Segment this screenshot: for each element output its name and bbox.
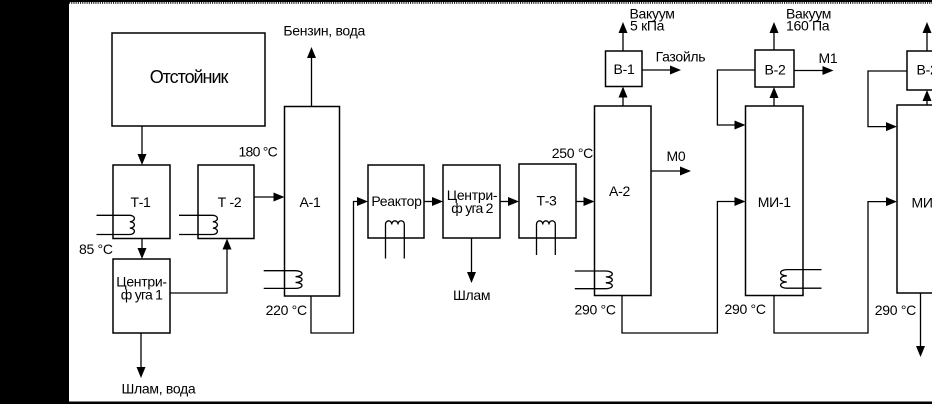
svg-text:МИ-1: МИ-1 xyxy=(758,194,791,210)
svg-text:В-1: В-1 xyxy=(614,61,635,77)
svg-text:Реактор: Реактор xyxy=(371,193,422,209)
coil in МИ-1 xyxy=(781,270,822,289)
svg-text:290 °С: 290 °С xyxy=(875,302,916,318)
wire В-2 М1 out xyxy=(794,70,823,72)
column МИ-2 box (clipped) xyxy=(897,105,932,293)
column МИ-1 box xyxy=(746,106,804,296)
svg-text:А-1: А-1 xyxy=(300,194,321,210)
centrifuge Центрифуга 1 box xyxy=(113,259,170,333)
svg-text:Т -2: Т -2 xyxy=(218,194,242,210)
wire В-2 right recycle to МИ-2 xyxy=(868,71,907,127)
heat exchanger Т-1 box xyxy=(113,165,170,239)
coil in Т-3 xyxy=(536,221,555,255)
wire Центрифуга 2 to Т-3 xyxy=(500,201,509,203)
svg-text:М0: М0 xyxy=(667,148,686,164)
wire Отстойник to Т-1 xyxy=(141,126,143,155)
vessel Отстойник box xyxy=(112,33,265,126)
svg-text:Отстойник: Отстойник xyxy=(150,67,229,87)
condenser В-1 box xyxy=(606,51,643,87)
svg-text:180 °С: 180 °С xyxy=(239,144,278,160)
svg-text:ф уга 1: ф уга 1 xyxy=(121,287,163,303)
column А-2 box xyxy=(595,106,652,296)
wire МИ-2 to В-2 right xyxy=(926,101,928,105)
wire В-2 recycle to МИ-1 xyxy=(717,70,755,125)
coil in А-2 xyxy=(575,271,613,289)
condenser В-2 box xyxy=(755,50,794,87)
wire А-2 bottoms to МИ-1 xyxy=(622,202,735,334)
reactor Реактор box xyxy=(368,165,424,238)
wire В-1 vacuum out xyxy=(622,33,624,51)
coil in Т-1 xyxy=(97,215,135,234)
wire МИ-2 bottoms out xyxy=(920,293,922,346)
wire А-2 М0 out xyxy=(651,170,681,172)
svg-text:Бензин, вода: Бензин, вода xyxy=(283,22,365,38)
coil in Реактор xyxy=(385,221,404,259)
svg-text:250 °С: 250 °С xyxy=(552,145,593,161)
column А-1 box xyxy=(285,107,340,297)
svg-text:85 °С: 85 °С xyxy=(79,241,113,257)
wire В-2 right vacuum out xyxy=(926,33,928,51)
wire Центрифуга 1 Шлам вода out xyxy=(140,333,142,367)
wire А-1 overhead Бензин xyxy=(311,58,313,107)
wire В-2 vacuum out xyxy=(773,33,775,50)
svg-text:ф уга 2: ф уга 2 xyxy=(451,200,493,216)
svg-text:290 °С: 290 °С xyxy=(575,302,616,318)
svg-text:290 °С: 290 °С xyxy=(725,301,766,317)
bottom black bar xyxy=(0,402,932,404)
heat exchanger Т-3 box xyxy=(519,164,576,238)
svg-text:Т-1: Т-1 xyxy=(130,194,151,210)
wire В-1 Газойль out xyxy=(642,69,671,71)
coil in А-1 xyxy=(264,271,302,289)
svg-text:Газойль: Газойль xyxy=(656,49,706,65)
svg-text:220 °С: 220 °С xyxy=(266,302,307,318)
svg-text:160 Па: 160 Па xyxy=(786,18,830,34)
wire МИ-1 to В-2 xyxy=(773,98,775,106)
wire МИ-1 bottoms to МИ-2 xyxy=(774,202,887,333)
condenser В-2 right box (clipped) xyxy=(907,51,932,90)
svg-text:Шлам: Шлам xyxy=(453,287,490,303)
svg-text:Шлам, вода: Шлам, вода xyxy=(122,381,196,397)
wire А-2 to В-1 xyxy=(622,98,624,107)
wire Реактор to Центрифуга 2 xyxy=(424,201,433,203)
centrifuge Центрифуга 2 box xyxy=(443,165,500,238)
svg-text:В-2: В-2 xyxy=(765,62,786,78)
coil in Т-2 xyxy=(179,215,217,234)
svg-text:В-2: В-2 xyxy=(917,62,932,78)
wire Т-3 to А-2 xyxy=(576,201,585,203)
svg-text:Т-3: Т-3 xyxy=(536,193,557,209)
wire А-1 bottoms to Реактор xyxy=(311,202,358,334)
wire Центрифуга 2 Шлам out xyxy=(471,238,473,272)
top border line xyxy=(69,0,932,2)
svg-text:А-2: А-2 xyxy=(609,183,630,199)
svg-text:М1: М1 xyxy=(819,50,838,66)
heat exchanger Т-2 box xyxy=(198,165,254,239)
wire Т-2 to А-1 xyxy=(254,196,274,198)
svg-text:МИ-2: МИ-2 xyxy=(912,194,932,210)
wire Центрифуга 1 to Т-2 xyxy=(170,250,227,294)
wire Т-1 to Центрифуга 1 xyxy=(141,239,143,250)
left black margin xyxy=(0,0,69,402)
svg-text:5 кПа: 5 кПа xyxy=(630,18,665,34)
